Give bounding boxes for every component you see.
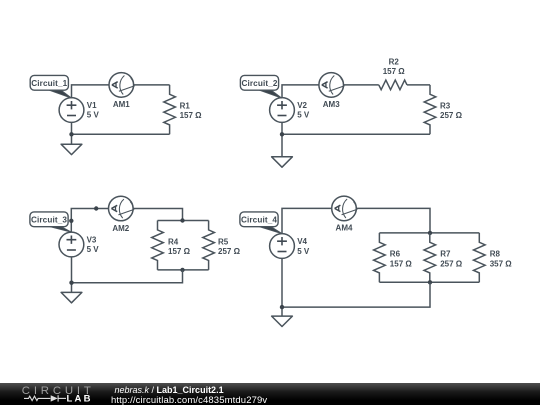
svg-text:R6: R6 [390, 250, 401, 259]
svg-text:R3: R3 [440, 101, 451, 110]
svg-text:357 Ω: 357 Ω [490, 259, 513, 268]
label R6 value [390, 250, 413, 269]
label R1 value [180, 101, 203, 120]
junction dot on V3 top wire [69, 219, 73, 223]
resistor R3 [424, 85, 436, 134]
ground [61, 144, 82, 154]
junction dot top bus [428, 231, 432, 235]
junction dot node V2- [280, 132, 284, 136]
ammeter AM2 [109, 196, 135, 221]
wire top bus R4-R5 [158, 220, 209, 222]
svg-text:157 Ω: 157 Ω [390, 259, 413, 268]
svg-text:AM3: AM3 [323, 100, 340, 109]
svg-text:R4: R4 [168, 237, 179, 246]
label V2 value [297, 101, 310, 120]
ground [272, 316, 293, 326]
svg-text:157 Ω: 157 Ω [180, 111, 203, 120]
label R8 value [490, 250, 513, 269]
resistor R4 [152, 221, 164, 270]
resistor R2 (horizontal) [379, 80, 407, 90]
wire R1 bottom to V1 bottom [72, 133, 170, 135]
wire V3 bottom to ground [71, 257, 73, 293]
resistor R6 [374, 233, 386, 282]
wire bus down to bottom rail to V3 bottom [72, 270, 183, 283]
label V1 value [87, 101, 100, 120]
footer bar [0, 383, 540, 405]
svg-text:5 V: 5 V [87, 111, 100, 120]
wire AM1 right to R1 top [134, 84, 170, 86]
resistor R8 [474, 233, 486, 282]
resistor R5 [203, 221, 215, 270]
svg-text:Circuit_2: Circuit_2 [241, 79, 277, 88]
label R3 value [440, 101, 463, 120]
svg-text:AM2: AM2 [112, 224, 129, 233]
voltage source V4 [270, 234, 295, 259]
junction dot on AM2 left wire [94, 206, 98, 210]
svg-text:257 Ω: 257 Ω [218, 247, 241, 256]
wire AM4 right to corner down to parallel top bus [357, 208, 431, 233]
footer credits line 1 [115, 385, 224, 395]
wire R3 bottom to V2 bottom [282, 133, 430, 135]
junction dot node V4- [280, 305, 284, 309]
svg-text:R7: R7 [440, 250, 451, 259]
svg-text:V2: V2 [297, 101, 307, 110]
node label Circuit_1 [30, 75, 71, 98]
label R5 value [218, 237, 241, 256]
svg-text:V1: V1 [87, 101, 97, 110]
svg-text:5 V: 5 V [87, 245, 100, 254]
ammeter AM1 [109, 73, 135, 98]
footer credits line 2 [111, 395, 267, 405]
svg-text:R2: R2 [389, 58, 400, 67]
junction dot node V3- [69, 281, 73, 285]
node label Circuit_4 [240, 212, 282, 234]
label R2 value [383, 58, 406, 77]
wire bottom bus R4-R5 [158, 269, 209, 271]
label V4 value [297, 237, 310, 256]
wire V2 top to corner to AM3 left [282, 85, 319, 98]
wire bus down to bottom rail to V4 bottom [282, 282, 430, 307]
svg-text:157 Ω: 157 Ω [168, 247, 191, 256]
svg-text:AM1: AM1 [113, 100, 130, 109]
svg-text:R8: R8 [490, 250, 501, 259]
svg-text:257 Ω: 257 Ω [440, 111, 463, 120]
wire R2 right to corner, down to R3 top [407, 84, 430, 86]
svg-text:LAB: LAB [67, 393, 93, 404]
junction dot top bus [180, 218, 184, 222]
label R7 value [440, 250, 463, 269]
logo resistor+diode doodle [24, 395, 66, 401]
svg-text:Circuit_4: Circuit_4 [241, 215, 277, 224]
wire node top-left L: V1 top to corner to AM1 left [72, 85, 110, 98]
wire bottom bus R6-R8 [379, 281, 479, 283]
ground [61, 292, 82, 302]
ammeter AM3 [319, 73, 345, 98]
voltage source V1 [59, 98, 84, 123]
label V3 value [87, 236, 100, 255]
voltage source V2 [270, 98, 295, 123]
wire V2 bottom to ground [281, 123, 283, 157]
wire AM2 right to corner down to parallel top bus [133, 209, 183, 221]
ammeter AM4 [332, 196, 358, 221]
junction dot bottom bus [180, 268, 184, 272]
CircuitLab logo [0, 383, 110, 405]
wire V4 top to corner to AM4 left [282, 208, 332, 234]
wire V3 top to corner to AM2 left [71, 209, 109, 233]
svg-text:R1: R1 [180, 101, 191, 110]
resistor R1 [164, 85, 176, 134]
wire top bus R6-R8 [379, 232, 479, 234]
wire AM3 right to R2 left [344, 84, 379, 86]
svg-text:R5: R5 [218, 237, 229, 246]
voltage source V3 [59, 232, 84, 257]
svg-text:5 V: 5 V [297, 111, 310, 120]
svg-text:Circuit_1: Circuit_1 [31, 79, 67, 88]
svg-text:Circuit_3: Circuit_3 [31, 215, 67, 224]
wire V1 bottom to ground [71, 122, 73, 144]
resistor R7 [424, 233, 436, 282]
svg-text:V4: V4 [297, 237, 307, 246]
label R4 value [168, 237, 191, 256]
svg-text:V3: V3 [87, 236, 97, 245]
junction dot bottom bus [428, 280, 432, 284]
ground [272, 157, 293, 167]
junction dot node V1- [69, 132, 73, 136]
svg-text:5 V: 5 V [297, 247, 310, 256]
node label Circuit_2 [240, 75, 281, 98]
svg-text:157 Ω: 157 Ω [383, 67, 406, 76]
svg-text:257 Ω: 257 Ω [440, 259, 463, 268]
svg-text:AM4: AM4 [336, 224, 353, 233]
node label Circuit_3 [30, 212, 72, 232]
wire V4 bottom to ground [281, 259, 283, 317]
